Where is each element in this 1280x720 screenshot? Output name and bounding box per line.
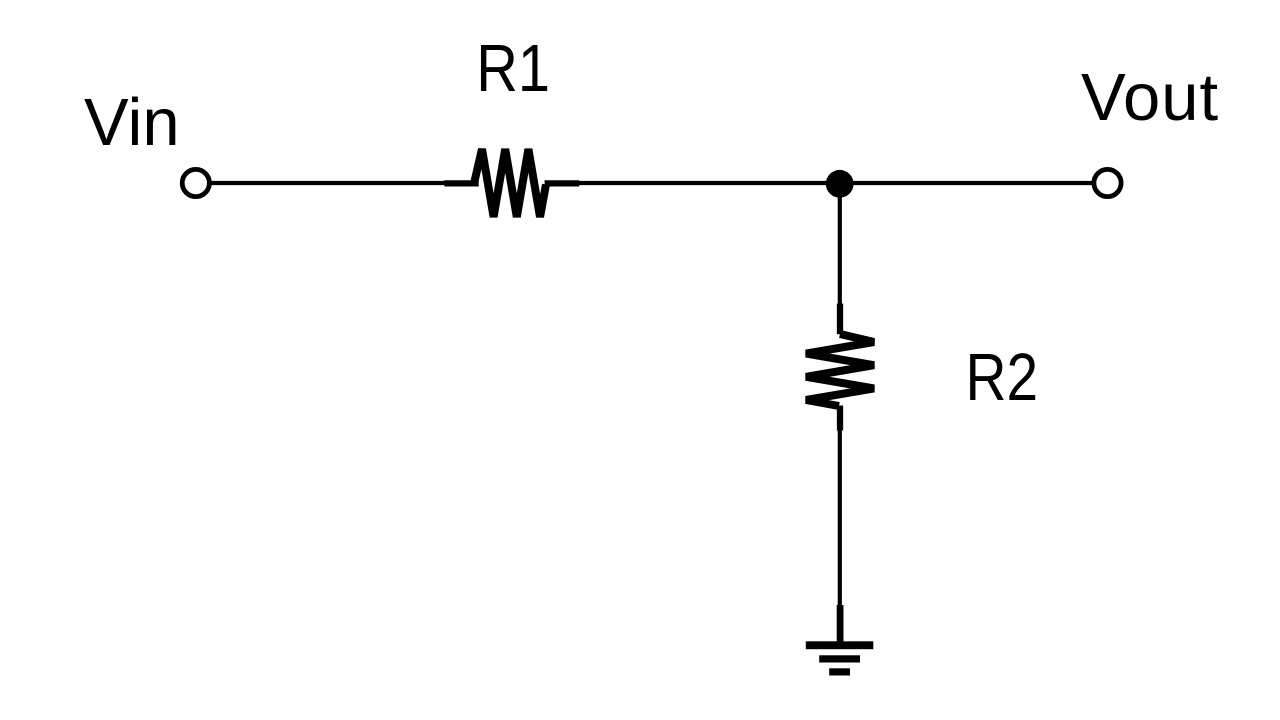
wire Vin to R1 <box>211 181 447 185</box>
svg-text:R2: R2 <box>966 341 1039 415</box>
svg-text:R1: R1 <box>476 31 550 106</box>
resistor R2 label <box>966 341 1039 415</box>
wire R1 to Vout <box>578 181 1092 185</box>
terminal Vout <box>1094 169 1121 196</box>
wire junction to R2 <box>838 183 842 307</box>
wire R2 to ground <box>838 429 842 608</box>
terminal Vin <box>182 169 209 196</box>
resistor R1 label <box>476 31 550 106</box>
resistor R2 <box>806 304 874 431</box>
resistor R1 <box>444 149 579 217</box>
junction node <box>826 170 854 198</box>
svg-text:Vin: Vin <box>84 85 180 160</box>
svg-text:Vout: Vout <box>1081 60 1219 135</box>
ground <box>806 605 874 676</box>
